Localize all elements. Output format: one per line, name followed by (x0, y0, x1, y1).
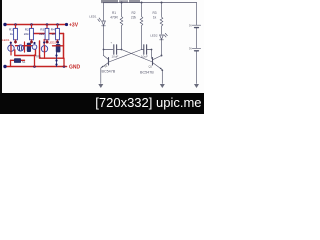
svg-text:TR1: TR1 (36, 55, 42, 59)
resistor R1 (board) (9, 25, 17, 44)
ground Q1 emitter (98, 84, 103, 88)
svg-text:22k: 22k (24, 32, 29, 36)
svg-text:1k: 1k (153, 15, 157, 19)
svg-text:[720x332] upic.me: [720x332] upic.me (95, 95, 201, 110)
faint cropped title text (101, 0, 140, 3)
wire drop to GND rail left (10, 60, 12, 66)
capacitor C2 (schematic) (141, 45, 148, 59)
wire C2 to Q2 base node (147, 50, 152, 59)
svg-text:+3V: +3V (69, 23, 79, 29)
wire Q1 emitter to ground (100, 68, 102, 84)
switch S1 (board, blue block) (14, 58, 26, 64)
resistor R4 (board) (51, 25, 60, 44)
wire drop to GND rail mid (34, 55, 36, 67)
node rail junctions (121, 2, 163, 4)
svg-text:1k: 1k (51, 32, 55, 36)
svg-text:22k: 22k (39, 32, 44, 36)
node bottom rail dots (3, 65, 65, 68)
wire switch row (11, 59, 25, 61)
wire to C1 (104, 49, 113, 51)
svg-text:LED2: LED2 (49, 41, 57, 45)
wire battery mid (196, 28, 198, 48)
wire LED2 to Q2 collector (161, 40, 163, 56)
wire mid horizontal through C1 (16, 45, 32, 47)
svg-text:470R: 470R (110, 15, 118, 19)
ground battery negative (194, 84, 199, 88)
left photo border (0, 0, 2, 114)
svg-text:LED1: LED1 (2, 38, 10, 42)
wire drop to GND rail right (63, 58, 65, 66)
node rail left end (3, 23, 6, 26)
wire GND bottom rail (5, 66, 67, 68)
wire cross-coupling R2 node to Q1 base (109, 50, 142, 63)
resistor R3 (schematic) (152, 3, 162, 35)
svg-text:BC547B: BC547B (140, 71, 154, 75)
ground Q2 emitter (160, 84, 165, 88)
wire battery branch upper (196, 3, 198, 25)
LED LED1 (schematic) (89, 15, 105, 26)
svg-text:Q1: Q1 (104, 64, 108, 68)
svg-text:1k: 1k (10, 32, 14, 36)
node C1 left junction (103, 49, 105, 51)
node R1 bottom junction (121, 49, 123, 51)
wire Q2 emitter to ground (161, 70, 163, 83)
LED LED2 (board) (41, 40, 56, 59)
svg-text:LED2: LED2 (150, 34, 158, 38)
wire branch 1 upper (103, 3, 105, 21)
svg-text:10uF: 10uF (141, 55, 148, 59)
capacitor C1 (board, electrolytic can) (25, 42, 33, 52)
svg-text:10uF: 10uF (112, 55, 119, 59)
wire center vertical (39, 41, 41, 58)
node Q2 emitter junction (161, 69, 163, 71)
LED LED1 (board) (2, 38, 14, 55)
LED LED2 (schematic) (150, 33, 167, 39)
resistor R2 (board) (24, 25, 34, 44)
svg-text:Q2: Q2 (149, 64, 153, 68)
transistor Q2 (board, small circle) (32, 42, 41, 59)
transistor Q1 (schematic BC547B) (101, 50, 116, 74)
battery BT1 cell 2 (189, 47, 201, 51)
watermark bar (0, 93, 204, 114)
wire R2 to C2 (142, 49, 144, 51)
node C2 right junction (151, 49, 153, 51)
svg-text:LED1: LED1 (89, 15, 97, 19)
svg-text:3V: 3V (189, 24, 192, 28)
wire mid horizontal through C2 (53, 45, 64, 47)
svg-text:22k: 22k (131, 15, 137, 19)
resistor R1 (schematic) (110, 3, 123, 50)
wire battery to ground (196, 51, 198, 84)
svg-text:BC547B: BC547B (102, 70, 116, 74)
wire C1 to node (117, 49, 122, 51)
resistor R2 (schematic) (131, 3, 143, 50)
capacitor C2 (board, electrolytic can) (54, 41, 61, 66)
wire red loop horizontal upper (30, 33, 64, 35)
wire red loop bottom horizontal (41, 57, 64, 59)
wire branch 1 lower (103, 26, 105, 50)
svg-text:S1: S1 (22, 60, 26, 64)
battery BT1 cell 1 (189, 24, 201, 28)
node junction dots on +3V rail (14, 23, 68, 26)
resistor R3 (board) (39, 25, 49, 44)
wire +3V top rail (5, 24, 67, 26)
capacitor C1 (schematic) (111, 41, 119, 59)
wire top rail (104, 2, 197, 4)
svg-text:3V: 3V (189, 47, 192, 51)
transistor Q1 (board) (18, 45, 24, 51)
wire lower-left loop (15, 49, 36, 56)
svg-text:GND: GND (69, 65, 81, 71)
wire red loop right vertical (63, 34, 65, 59)
transistor Q2 (schematic BC547B) (140, 56, 162, 75)
wire cross-coupling C1 node to Q2 base (122, 50, 153, 63)
